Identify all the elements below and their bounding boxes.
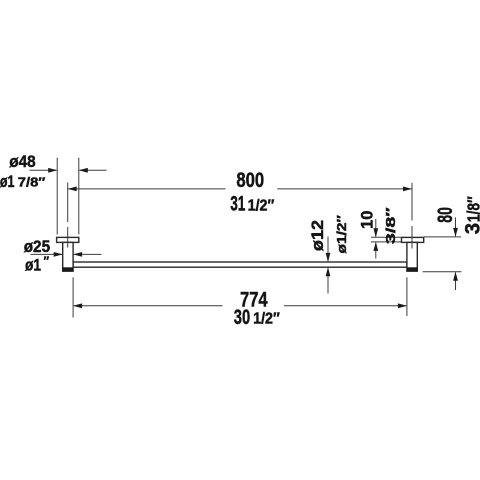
left post: [63, 242, 73, 271]
svg-text:ø1: ø1: [25, 257, 41, 275]
80 ext line top: [424, 236, 461, 238]
wire bar (towel rail tube): [73, 262, 407, 267]
svg-text:1/2″: 1/2″: [248, 197, 275, 214]
ø25 dim arrow right: [74, 253, 102, 255]
800 arrow left: [68, 187, 77, 192]
svg-text:3: 3: [461, 223, 480, 234]
ø48 dim arrow right: [80, 169, 107, 171]
80 ext line bottom: [423, 271, 462, 273]
ø12 dim arrow lower: [327, 268, 329, 294]
svg-text:31: 31: [230, 193, 245, 216]
svg-text:80: 80: [434, 207, 457, 223]
svg-text:″: ″: [44, 253, 50, 268]
extension line ø48 left: [56, 158, 58, 235]
left flange plate: [57, 237, 79, 242]
svg-text:10: 10: [358, 211, 376, 229]
ø25 dim arrow left: [31, 253, 63, 255]
svg-text:ø1/2″: ø1/2″: [334, 215, 349, 253]
left centerline: [67, 183, 69, 223]
left post end cap (filled): [62, 267, 73, 271]
right post end cap (filled): [406, 267, 417, 271]
774 ext line right: [406, 277, 408, 316]
10 ext line top: [371, 236, 401, 238]
svg-text:ø48: ø48: [9, 153, 35, 171]
774 ext line left: [72, 277, 74, 317]
10 dim arrow upper: [375, 219, 377, 237]
svg-text:7/8″: 7/8″: [18, 175, 46, 190]
ø12 dim arrow upper: [327, 237, 329, 262]
svg-text:1/8″: 1/8″: [463, 196, 480, 222]
774 arrow left: [73, 303, 82, 308]
ø48 dim arrow left: [30, 169, 57, 171]
10 ext line bottom: [371, 241, 401, 243]
svg-text:3/8″: 3/8″: [383, 207, 398, 244]
svg-text:ø1: ø1: [0, 173, 15, 191]
80 dim arrow lower: [455, 273, 457, 291]
svg-text:800: 800: [236, 169, 264, 192]
774 dim line: [74, 305, 223, 307]
80 dim arrow upper: [455, 218, 457, 237]
10 dim arrow lower: [375, 243, 377, 259]
774 arrow right: [398, 303, 407, 308]
svg-text:ø12: ø12: [309, 220, 327, 251]
right flange plate: [402, 237, 424, 242]
svg-text:30: 30: [234, 306, 250, 329]
extension line ø48 right: [78, 158, 80, 235]
800 dim line: [68, 188, 225, 190]
svg-text:1/2″: 1/2″: [253, 311, 280, 328]
right post: [407, 242, 417, 271]
800 arrow right: [403, 187, 412, 192]
right centerline: [411, 183, 413, 221]
